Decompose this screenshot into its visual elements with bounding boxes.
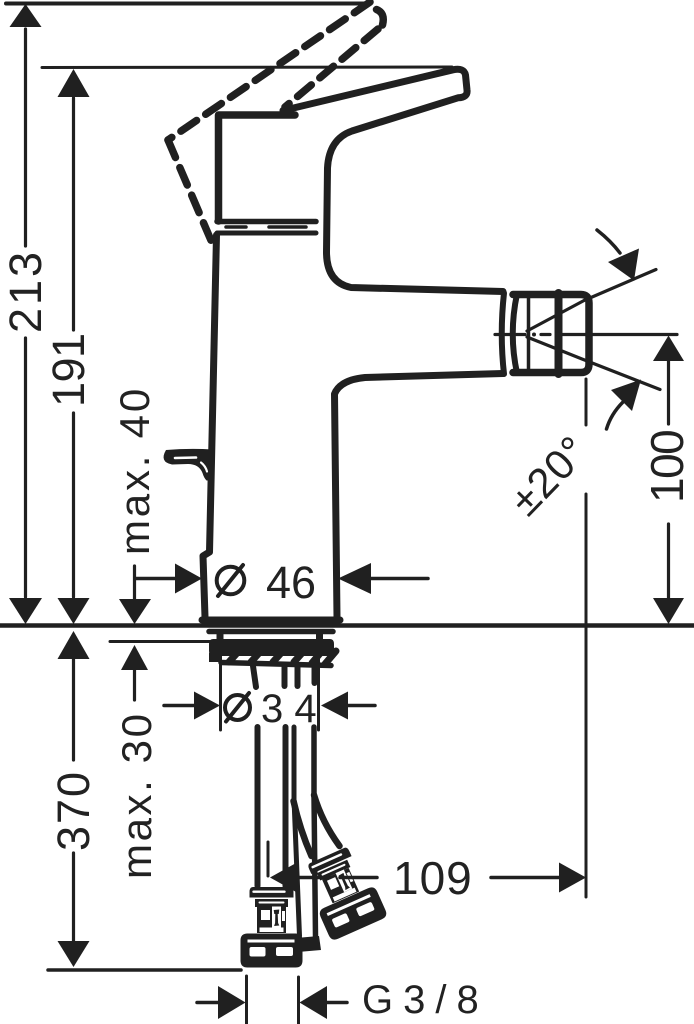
fixture centre extension line <box>267 842 270 876</box>
dimension 109 <box>270 379 586 904</box>
dimension 191 <box>43 69 94 624</box>
right hose connector <box>299 843 388 942</box>
dimension 213 <box>0 4 51 624</box>
svg-text:G3/8: G3/8 <box>362 978 489 1022</box>
handle block <box>219 115 296 221</box>
svg-text:46: 46 <box>266 557 316 608</box>
svg-text:max. 40: max. 40 <box>111 386 158 555</box>
reference line handle top (191 datum) <box>42 66 452 70</box>
svg-text:100: 100 <box>641 431 693 503</box>
pop-up rod tube <box>294 727 300 936</box>
svg-text:370: 370 <box>48 770 99 851</box>
dashed lever raised position <box>168 2 383 245</box>
mounting nut hatched <box>209 639 336 666</box>
bottom hose-end reference line <box>48 968 241 972</box>
flange bar below base <box>209 629 333 635</box>
dimension 370 <box>48 631 99 967</box>
dimension O46 <box>135 557 428 608</box>
left hose walls <box>255 727 261 886</box>
dimension max. 40 <box>111 386 158 624</box>
svg-text:3 4: 3 4 <box>261 687 317 731</box>
baseline counter surface <box>0 623 694 628</box>
seam joint lines <box>217 222 316 234</box>
left hose connector <box>241 887 303 968</box>
rod foot <box>296 936 321 952</box>
pop-up rod lever <box>164 449 213 481</box>
svg-text:109: 109 <box>393 852 473 904</box>
dimension max. 30 <box>113 645 160 879</box>
swivel centerline rays <box>495 270 677 390</box>
swivel arrow top <box>597 230 639 281</box>
lever handle and spout top outline <box>283 69 503 291</box>
right hose bend to connector <box>294 801 312 856</box>
flange tabs <box>220 633 320 640</box>
aerator spray head <box>502 293 589 374</box>
body right edge and spout underside <box>335 374 504 618</box>
dimension O34 <box>164 633 375 731</box>
tick line under flange <box>110 640 218 643</box>
reference line top (213 datum) <box>6 2 370 6</box>
dimension 100 <box>641 336 693 625</box>
svg-text:max. 30: max. 30 <box>113 711 160 879</box>
supply tube stubs below nut <box>253 666 315 687</box>
base bottom edge <box>202 617 340 624</box>
dimension G3/8 <box>197 976 489 1024</box>
109 line over connector <box>340 876 377 880</box>
svg-text:191: 191 <box>43 333 94 407</box>
body left edge <box>203 235 217 617</box>
svg-text:213: 213 <box>0 249 51 333</box>
svg-text:±20°: ±20° <box>501 426 598 524</box>
swivel arrow bottom <box>607 380 642 430</box>
